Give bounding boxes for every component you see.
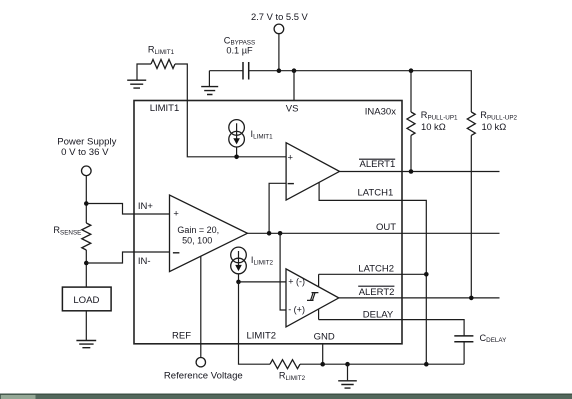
wire LATCH2 to DELAY bracket xyxy=(318,274,320,319)
svg-text:RPULL-UP1: RPULL-UP1 xyxy=(421,110,458,121)
svg-text:ILIMIT1: ILIMIT1 xyxy=(251,129,274,140)
svg-text:ILIMIT2: ILIMIT2 xyxy=(251,255,274,266)
svg-text:+: + xyxy=(173,207,179,218)
wire RPULL-UP2 lower lead to ALERT2 xyxy=(470,135,472,298)
resistor RPULL-UP2 xyxy=(467,110,517,135)
wire supply drop to VS rail xyxy=(278,34,280,71)
load box xyxy=(62,287,111,311)
resistor RSENSE xyxy=(53,223,90,250)
svg-text:INA30x: INA30x xyxy=(365,106,396,117)
svg-text:2.7 V to 5.5 V: 2.7 V to 5.5 V xyxy=(251,11,309,22)
wire RPULL-UP1 leads xyxy=(410,71,412,172)
op-amp gain stage xyxy=(170,195,248,272)
wire ground bus at bottom xyxy=(300,363,464,365)
pin label ALERT2 with overline xyxy=(358,286,394,298)
wire RLIMIT1 left lead xyxy=(137,64,151,80)
wire LATCH2 line xyxy=(319,273,427,275)
svg-text:- (+): - (+) xyxy=(288,305,305,315)
current source ILIMIT2 xyxy=(231,247,274,282)
wire LIMIT2 pin down to RLIMIT2 xyxy=(239,282,271,364)
svg-text:LATCH2: LATCH2 xyxy=(358,263,394,274)
wire LATCH1 line down to ground bus xyxy=(319,182,426,364)
svg-text:VS: VS xyxy=(286,104,299,115)
node IN+ tap xyxy=(84,201,89,206)
wire VS pin drop xyxy=(293,71,295,101)
ground (CBYPASS) xyxy=(201,71,218,95)
svg-text:CDELAY: CDELAY xyxy=(480,333,508,344)
svg-text:RPULL-UP2: RPULL-UP2 xyxy=(480,110,517,121)
wire OUT line from amplifier output xyxy=(247,232,499,234)
node supply/rail junction xyxy=(277,68,282,73)
svg-text:DELAY: DELAY xyxy=(363,309,394,320)
svg-text:LATCH1: LATCH1 xyxy=(358,188,394,199)
svg-text:ALERT1: ALERT1 xyxy=(360,159,396,170)
svg-text:LIMIT2: LIMIT2 xyxy=(247,331,277,342)
svg-text:IN-: IN- xyxy=(138,256,151,267)
wire comparator U2 lower input from OUT xyxy=(280,233,286,310)
wire REF pin from amplifier to reference terminal xyxy=(200,256,202,357)
wire VS rail left segment to CBYPASS xyxy=(209,70,243,72)
ground (LOAD) xyxy=(76,341,96,348)
node OUT to comparator U2 feedback xyxy=(278,231,283,236)
wire RLIMIT1 to LIMIT1 pin and comparator U1 non-inverting input xyxy=(175,64,286,157)
node LATCH1/LATCH2 junction xyxy=(424,272,429,277)
resistor RLIMIT2 xyxy=(270,360,306,382)
capacitor CDELAY xyxy=(454,333,507,344)
node ground symbol junction xyxy=(345,362,350,367)
node ALERT1 / RPULL-UP1 junction xyxy=(409,169,414,174)
svg-text:LIMIT1: LIMIT1 xyxy=(150,103,180,114)
node OUT to comparator U1 feedback xyxy=(267,231,272,236)
svg-text:Gain = 20,: Gain = 20, xyxy=(177,225,219,235)
supply terminal 2.7 V to 5.5 V xyxy=(251,11,309,34)
power supply terminal 0 V to 36 V xyxy=(57,136,116,175)
comparator U2 (ALERT2, hysteresis) xyxy=(286,269,339,327)
svg-text:0.1 µF: 0.1 µF xyxy=(226,45,253,55)
svg-text:50, 100: 50, 100 xyxy=(182,235,212,245)
node GND junction xyxy=(320,362,325,367)
svg-text:+ (-): + (-) xyxy=(288,276,305,286)
svg-text:REF: REF xyxy=(172,331,191,342)
wire VS rail right segment to RPULL-UP2 drop xyxy=(249,71,472,112)
svg-text:OUT: OUT xyxy=(376,222,396,233)
svg-text:RLIMIT2: RLIMIT2 xyxy=(279,370,306,381)
status bar xyxy=(0,394,572,399)
current source ILIMIT1 xyxy=(229,120,273,157)
svg-text:0 V to 36 V: 0 V to 36 V xyxy=(61,147,109,158)
svg-text:LOAD: LOAD xyxy=(73,295,99,306)
wire ALERT1 output line xyxy=(340,171,500,173)
wire DELAY line to CDELAY xyxy=(319,320,465,336)
node IN- tap xyxy=(84,261,89,266)
node ALERT2 / RPULL-UP2 junction xyxy=(469,296,474,301)
node VS tap junction xyxy=(292,68,297,73)
ground (RLIMIT1) xyxy=(127,80,146,88)
node ILIMIT1 junction xyxy=(234,155,239,160)
comparator U1 (ALERT1) xyxy=(286,143,339,200)
svg-text:RLIMIT1: RLIMIT1 xyxy=(148,45,175,56)
wire CDELAY bottom lead xyxy=(463,342,465,364)
node ILIMIT2 junction xyxy=(236,280,241,285)
wire GND pin drop xyxy=(322,344,324,364)
wire IN+ to amplifier xyxy=(86,204,169,215)
wire LOAD to ground xyxy=(85,311,87,340)
resistor RLIMIT1 xyxy=(148,45,175,69)
svg-text:RSENSE: RSENSE xyxy=(53,225,81,236)
wire ALERT2 output line xyxy=(339,297,500,299)
svg-text:+: + xyxy=(288,151,294,162)
reference voltage terminal xyxy=(164,358,243,382)
pin label ALERT1 with overline xyxy=(359,159,395,170)
wire comparator U1 inverting input from OUT xyxy=(269,183,286,233)
svg-text:Reference Voltage: Reference Voltage xyxy=(164,371,243,382)
node latch/ground bus junction xyxy=(424,362,429,367)
svg-text:GND: GND xyxy=(314,331,335,342)
node RPULL-UP1 tap junction xyxy=(409,68,414,73)
IC outline INA30x xyxy=(134,101,402,344)
wire power supply to RSENSE xyxy=(85,176,87,223)
wire comparator U2 upper input xyxy=(239,281,287,283)
svg-text:IN+: IN+ xyxy=(138,201,154,212)
resistor RPULL-UP1 xyxy=(407,110,458,135)
ground (main) xyxy=(338,364,357,388)
svg-text:10 kΩ: 10 kΩ xyxy=(482,121,507,132)
capacitor CBYPASS xyxy=(224,35,255,79)
svg-text:ALERT2: ALERT2 xyxy=(359,287,395,298)
svg-text:10 kΩ: 10 kΩ xyxy=(421,121,446,132)
wire IN- to amplifier xyxy=(86,252,169,263)
svg-text:Power Supply: Power Supply xyxy=(57,136,116,147)
wire RSENSE to LOAD xyxy=(85,250,87,287)
